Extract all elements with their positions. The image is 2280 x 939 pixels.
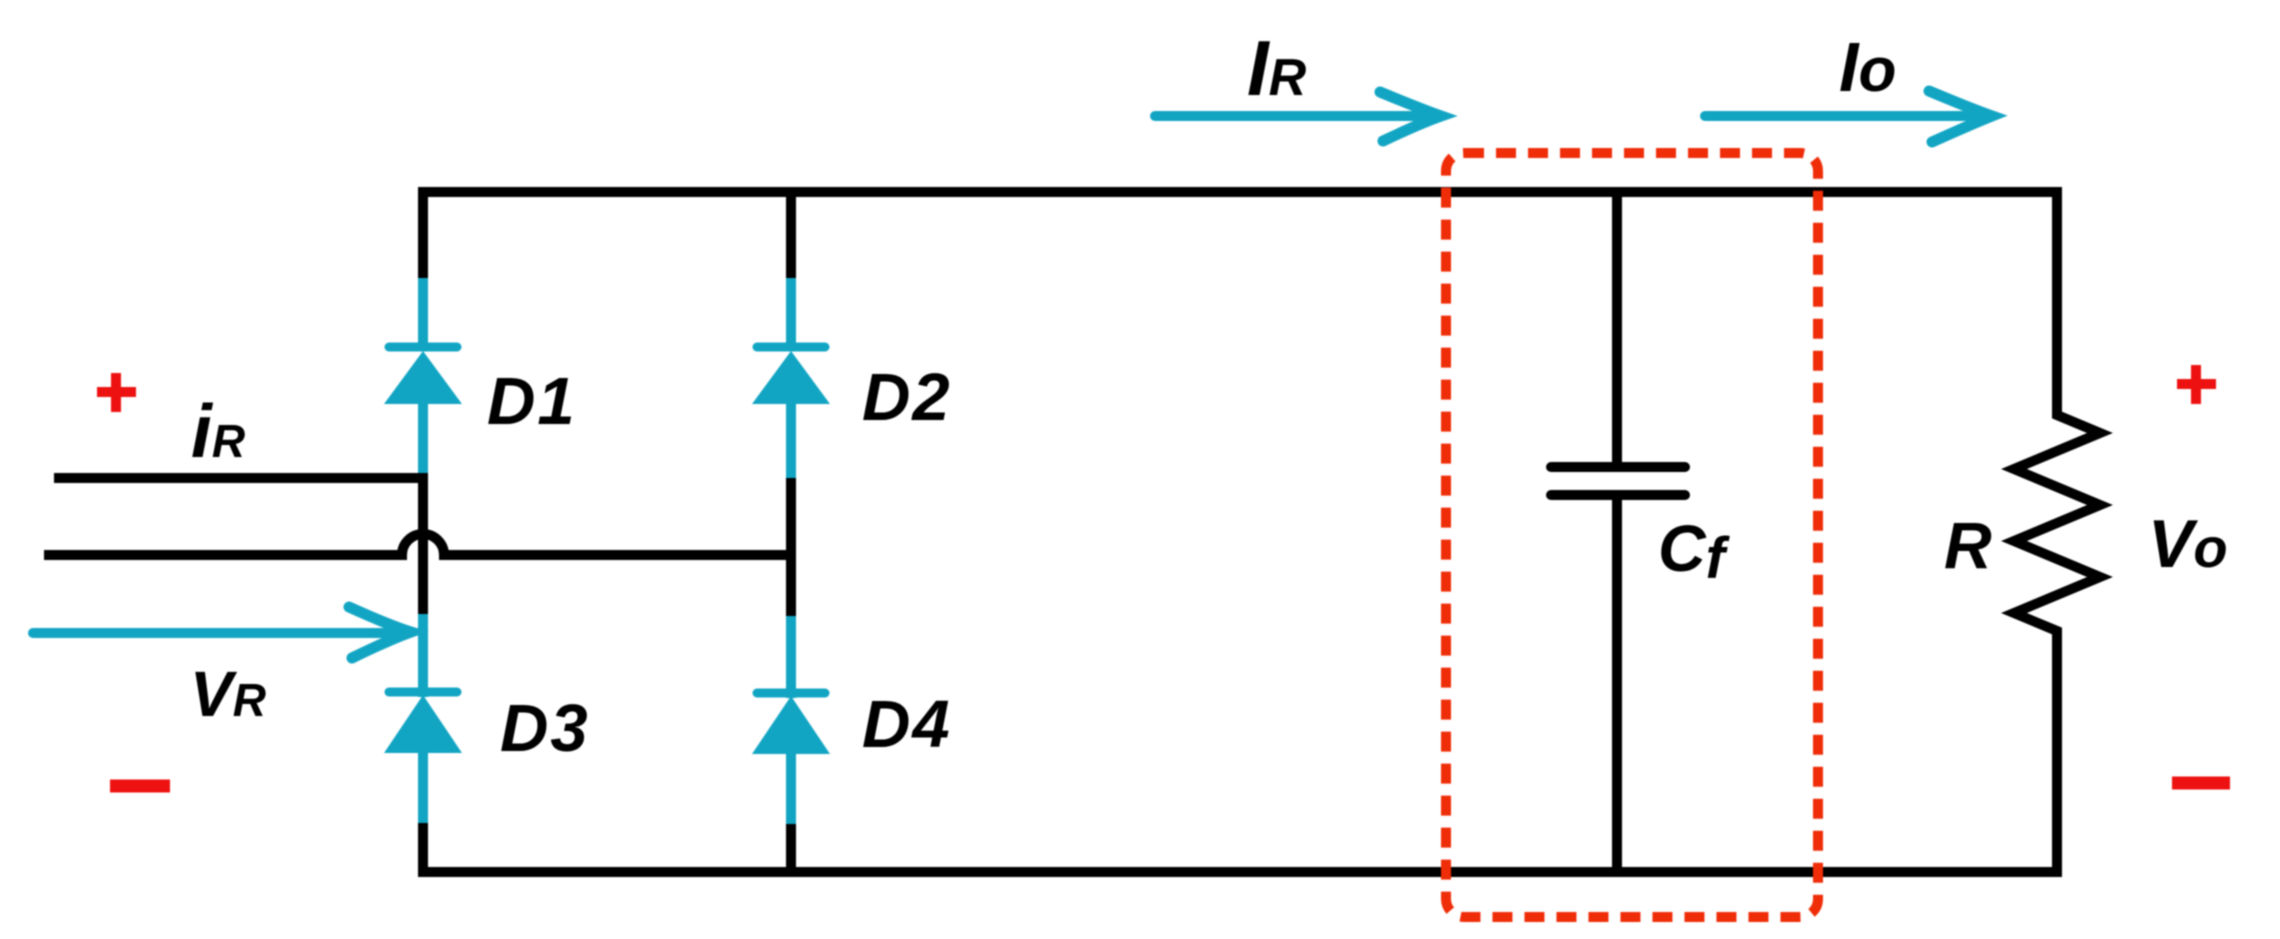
svg-text:D2: D2	[862, 360, 952, 435]
svg-text:D1: D1	[487, 364, 577, 439]
svg-text:D4: D4	[862, 687, 952, 762]
svg-text:R: R	[1944, 508, 1992, 582]
svg-text:Vo: Vo	[2148, 506, 2228, 582]
svg-text:D3: D3	[500, 691, 590, 766]
svg-text:VR: VR	[190, 658, 266, 730]
svg-text:IR: IR	[1247, 24, 1307, 112]
svg-text:Io: Io	[1839, 28, 1896, 106]
svg-text:Cf: Cf	[1658, 511, 1731, 591]
svg-text:iR: iR	[191, 389, 245, 473]
